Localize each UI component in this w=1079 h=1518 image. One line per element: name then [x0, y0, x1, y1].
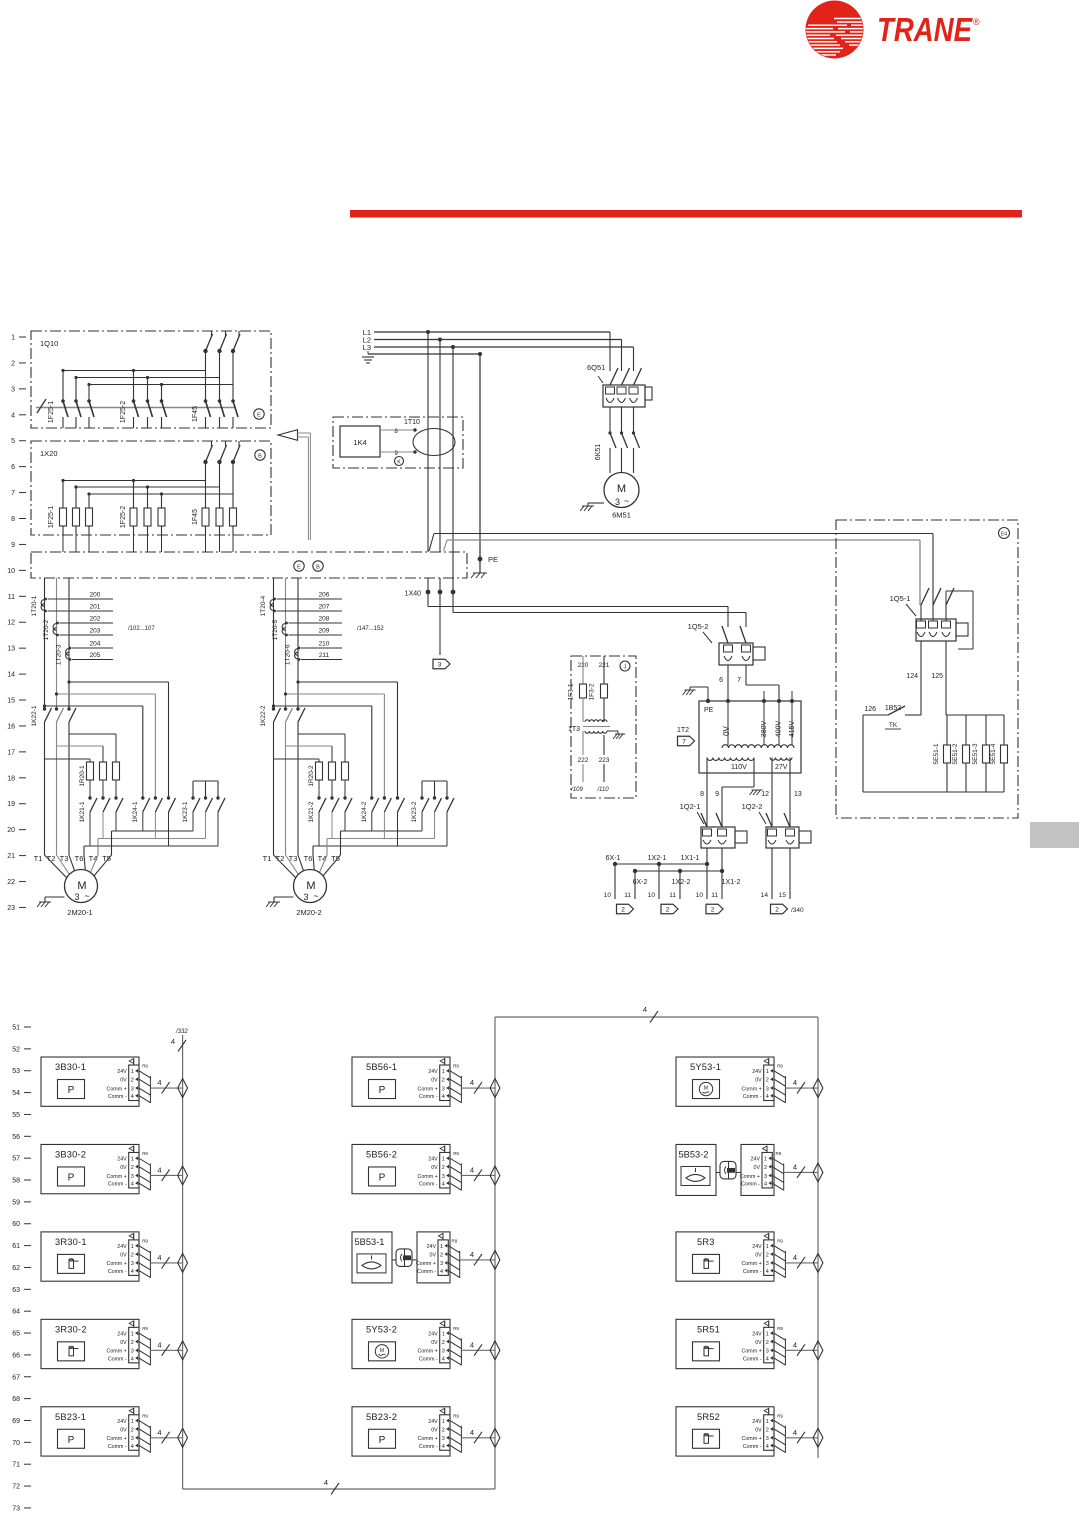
svg-text:15: 15: [7, 698, 15, 705]
svg-text:1Q10: 1Q10: [40, 339, 58, 348]
svg-text:/102...107: /102...107: [128, 626, 155, 632]
svg-text:65: 65: [12, 1331, 20, 1338]
svg-text:8: 8: [394, 428, 398, 435]
svg-text:24V: 24V: [117, 1069, 127, 1075]
svg-text:6Q51: 6Q51: [587, 363, 605, 372]
svg-text:0V: 0V: [120, 1340, 127, 1346]
svg-text:4: 4: [470, 1250, 474, 1259]
svg-text:206: 206: [319, 592, 330, 599]
svg-text:11: 11: [711, 892, 718, 899]
svg-text:16: 16: [7, 723, 15, 730]
svg-text:/109: /109: [570, 787, 583, 793]
svg-text:1R20-2: 1R20-2: [308, 765, 315, 787]
svg-text:TK: TK: [889, 722, 898, 729]
svg-text:3B30-1: 3B30-1: [55, 1062, 86, 1072]
svg-text:4: 4: [324, 1478, 328, 1487]
svg-text:24V: 24V: [117, 1244, 127, 1250]
svg-text:1K4: 1K4: [353, 438, 366, 447]
svg-text:/110: /110: [596, 787, 609, 793]
svg-text:/332: /332: [175, 1029, 188, 1035]
svg-text:1B52: 1B52: [885, 705, 901, 712]
svg-text:1F25-2: 1F25-2: [120, 506, 127, 528]
svg-text:1: 1: [131, 1244, 134, 1250]
svg-text:4: 4: [442, 1181, 445, 1187]
svg-text:0V: 0V: [430, 1252, 437, 1258]
svg-text:1: 1: [766, 1244, 769, 1250]
svg-text:1K24-2: 1K24-2: [361, 801, 368, 822]
svg-text:24V: 24V: [117, 1331, 127, 1337]
svg-text:6: 6: [11, 464, 15, 471]
svg-text:5B53-2: 5B53-2: [679, 1149, 709, 1159]
svg-text:4: 4: [793, 1162, 797, 1171]
svg-text:1X2-1: 1X2-1: [648, 855, 667, 862]
svg-text:4: 4: [766, 1356, 769, 1362]
svg-text:Comm +: Comm +: [107, 1349, 127, 1355]
svg-text:24V: 24V: [752, 1331, 762, 1337]
svg-text:R9: R9: [142, 1238, 148, 1243]
svg-text:1K21-1: 1K21-1: [79, 801, 86, 822]
svg-text:0V: 0V: [120, 1078, 127, 1084]
svg-text:20: 20: [7, 827, 15, 834]
svg-text:Comm -: Comm -: [108, 1094, 127, 1100]
svg-text:69: 69: [12, 1418, 20, 1425]
svg-text:Comm -: Comm -: [743, 1356, 762, 1362]
svg-text:2M20-1: 2M20-1: [67, 908, 92, 917]
svg-text:9: 9: [715, 791, 719, 798]
svg-text:Comm -: Comm -: [108, 1444, 127, 1450]
svg-text:1: 1: [766, 1069, 769, 1075]
svg-text:1T20-4: 1T20-4: [260, 595, 267, 616]
svg-text:24V: 24V: [751, 1157, 761, 1163]
svg-text:J: J: [624, 665, 627, 671]
svg-text:Comm +: Comm +: [107, 1261, 127, 1267]
svg-text:0V: 0V: [431, 1340, 438, 1346]
svg-text:0V: 0V: [431, 1427, 438, 1433]
svg-text:3: 3: [442, 1436, 445, 1442]
svg-text:Comm +: Comm +: [418, 1174, 438, 1180]
svg-text:17: 17: [7, 749, 15, 756]
svg-text:4: 4: [470, 1428, 474, 1437]
svg-text:6K51: 6K51: [595, 444, 602, 460]
svg-text:1K21-2: 1K21-2: [308, 801, 315, 822]
svg-text:1K22-2: 1K22-2: [260, 705, 267, 726]
svg-text:2: 2: [442, 1165, 445, 1171]
svg-text:Comm -: Comm -: [743, 1094, 762, 1100]
svg-text:1F45: 1F45: [192, 509, 199, 525]
svg-text:Comm +: Comm +: [742, 1261, 762, 1267]
svg-text:TRANE: TRANE: [877, 11, 973, 48]
svg-text:5Y53-2: 5Y53-2: [366, 1324, 397, 1334]
svg-text:3: 3: [303, 892, 308, 902]
svg-text:55: 55: [12, 1112, 20, 1119]
svg-text:73: 73: [12, 1505, 20, 1512]
svg-text:6: 6: [719, 677, 723, 684]
svg-text:24V: 24V: [117, 1157, 127, 1163]
svg-text:4: 4: [157, 1253, 161, 1262]
svg-text:10: 10: [648, 892, 656, 899]
svg-text:1: 1: [442, 1069, 445, 1075]
svg-text:4: 4: [131, 1356, 134, 1362]
svg-text:1Q5-1: 1Q5-1: [890, 594, 911, 603]
svg-text:207: 207: [319, 604, 330, 611]
svg-text:Comm -: Comm -: [419, 1444, 438, 1450]
svg-text:10: 10: [7, 568, 15, 575]
svg-text:2: 2: [442, 1427, 445, 1433]
svg-text:1: 1: [442, 1157, 445, 1163]
svg-text:1X40: 1X40: [405, 591, 421, 598]
svg-text:4: 4: [793, 1078, 797, 1087]
svg-text:7: 7: [737, 677, 741, 684]
svg-text:5R52: 5R52: [697, 1412, 720, 1422]
svg-text:Comm +: Comm +: [107, 1174, 127, 1180]
svg-text:R9: R9: [776, 1151, 782, 1156]
svg-text:126: 126: [864, 706, 876, 713]
svg-text:1: 1: [766, 1419, 769, 1425]
svg-text:22: 22: [7, 879, 15, 886]
svg-text:1T20-3: 1T20-3: [56, 644, 63, 665]
svg-text:125: 125: [931, 673, 943, 680]
svg-text:2: 2: [131, 1078, 134, 1084]
svg-text:1K23-1: 1K23-1: [182, 801, 189, 822]
svg-text:1K24-1: 1K24-1: [132, 801, 139, 822]
svg-text:1: 1: [442, 1331, 445, 1337]
svg-text:T1: T1: [34, 854, 43, 863]
svg-text:3: 3: [11, 386, 15, 393]
svg-text:59: 59: [12, 1199, 20, 1206]
svg-text:203: 203: [90, 628, 101, 635]
svg-text:Comm +: Comm +: [742, 1349, 762, 1355]
svg-text:5B23-1: 5B23-1: [55, 1412, 86, 1422]
svg-text:1F25-2: 1F25-2: [120, 401, 127, 423]
svg-text:3: 3: [440, 1261, 443, 1267]
svg-text:18: 18: [7, 775, 15, 782]
svg-text:2: 2: [131, 1252, 134, 1258]
svg-text:1: 1: [131, 1157, 134, 1163]
svg-text:4: 4: [440, 1269, 443, 1275]
svg-text:1T20-2: 1T20-2: [43, 619, 50, 640]
svg-text:24V: 24V: [752, 1244, 762, 1250]
svg-text:110V: 110V: [731, 764, 747, 771]
svg-text:5R51: 5R51: [697, 1324, 720, 1334]
svg-text:E: E: [257, 413, 261, 419]
svg-text:2: 2: [775, 907, 779, 914]
svg-text:15: 15: [779, 892, 787, 899]
svg-text:Comm -: Comm -: [108, 1356, 127, 1362]
svg-text:1: 1: [440, 1244, 443, 1250]
svg-text:1T3: 1T3: [568, 726, 580, 733]
svg-text:1: 1: [442, 1419, 445, 1425]
svg-text:14: 14: [7, 672, 15, 679]
svg-text:R9: R9: [777, 1326, 783, 1331]
svg-text:/340: /340: [791, 907, 804, 914]
svg-text:9: 9: [11, 542, 15, 549]
svg-text:6M51: 6M51: [612, 511, 631, 520]
svg-text:3: 3: [442, 1174, 445, 1180]
svg-text:4: 4: [766, 1444, 769, 1450]
svg-text:124: 124: [906, 673, 918, 680]
svg-text:5E51-2: 5E51-2: [952, 743, 959, 764]
svg-text:R9: R9: [777, 1064, 783, 1069]
svg-text:0V: 0V: [120, 1427, 127, 1433]
svg-text:4: 4: [470, 1165, 474, 1174]
svg-text:3: 3: [131, 1174, 134, 1180]
svg-text:1: 1: [131, 1331, 134, 1337]
svg-text:24V: 24V: [752, 1419, 762, 1425]
svg-text:21: 21: [7, 853, 15, 860]
svg-text:2: 2: [766, 1252, 769, 1258]
svg-text:60: 60: [12, 1221, 20, 1228]
svg-text:4: 4: [131, 1444, 134, 1450]
svg-text:4: 4: [131, 1094, 134, 1100]
svg-text:4: 4: [131, 1181, 134, 1187]
svg-text:3: 3: [766, 1261, 769, 1267]
svg-text:3B30-2: 3B30-2: [55, 1149, 86, 1159]
svg-text:/147...152: /147...152: [357, 626, 384, 632]
svg-text:Comm -: Comm -: [419, 1356, 438, 1362]
svg-text:2: 2: [621, 907, 625, 914]
svg-text:23: 23: [7, 905, 15, 912]
svg-text:1F3-2: 1F3-2: [589, 683, 596, 700]
svg-text:5R3: 5R3: [697, 1237, 715, 1247]
svg-text:Comm +: Comm +: [742, 1086, 762, 1092]
svg-text:7: 7: [11, 490, 15, 497]
svg-text:3: 3: [442, 1349, 445, 1355]
svg-text:4: 4: [11, 412, 15, 419]
svg-text:PE: PE: [488, 555, 498, 564]
svg-text:11: 11: [8, 594, 15, 601]
svg-text:2: 2: [131, 1340, 134, 1346]
svg-text:3: 3: [766, 1349, 769, 1355]
svg-text:63: 63: [12, 1287, 20, 1294]
svg-text:1Q5-2: 1Q5-2: [688, 622, 709, 631]
svg-text:Comm -: Comm -: [419, 1181, 438, 1187]
svg-text:6X-2: 6X-2: [633, 879, 648, 886]
svg-text:3: 3: [615, 497, 620, 507]
svg-text:R9: R9: [453, 1413, 459, 1418]
svg-text:1Q2-1: 1Q2-1: [680, 802, 701, 811]
svg-text:1K23-2: 1K23-2: [411, 801, 418, 822]
svg-text:4: 4: [442, 1094, 445, 1100]
svg-text:4: 4: [793, 1428, 797, 1437]
svg-text:4: 4: [470, 1078, 474, 1087]
svg-text:5Y53-1: 5Y53-1: [690, 1062, 721, 1072]
svg-text:1X1-1: 1X1-1: [681, 855, 700, 862]
svg-text:2: 2: [440, 1252, 443, 1258]
svg-text:5: 5: [11, 438, 15, 445]
svg-text:27V: 27V: [775, 764, 788, 771]
svg-text:4: 4: [157, 1340, 161, 1349]
svg-text:2: 2: [766, 1427, 769, 1433]
svg-text:13: 13: [794, 791, 802, 798]
svg-text:204: 204: [90, 641, 101, 648]
svg-text:11: 11: [624, 892, 631, 899]
svg-text:2: 2: [442, 1340, 445, 1346]
svg-text:R9: R9: [777, 1413, 783, 1418]
svg-text:24V: 24V: [428, 1331, 438, 1337]
svg-text:0V: 0V: [431, 1078, 438, 1084]
svg-text:1T10: 1T10: [404, 419, 420, 426]
svg-text:Comm +: Comm +: [416, 1261, 436, 1267]
svg-text:5E51-3: 5E51-3: [972, 743, 979, 764]
svg-text:3: 3: [131, 1086, 134, 1092]
svg-text:1X20: 1X20: [40, 449, 58, 458]
svg-text:~: ~: [624, 496, 629, 506]
svg-text:3: 3: [74, 892, 79, 902]
svg-text:1F25-1: 1F25-1: [48, 401, 55, 423]
svg-text:3R30-2: 3R30-2: [55, 1324, 87, 1334]
svg-text:205: 205: [90, 652, 101, 659]
svg-text:51: 51: [12, 1025, 20, 1032]
svg-text:Comm -: Comm -: [108, 1269, 127, 1275]
svg-text:P: P: [379, 1085, 386, 1096]
svg-text:R9: R9: [453, 1326, 459, 1331]
svg-text:58: 58: [12, 1178, 20, 1185]
svg-text:3: 3: [766, 1436, 769, 1442]
svg-text:0V: 0V: [755, 1427, 762, 1433]
svg-text:1F3-1: 1F3-1: [568, 683, 575, 700]
svg-text:B: B: [258, 454, 262, 460]
svg-text:1T20-6: 1T20-6: [285, 644, 292, 665]
svg-text:2: 2: [666, 907, 670, 914]
svg-text:P: P: [379, 1172, 386, 1183]
svg-text:222: 222: [578, 757, 589, 764]
svg-text:12: 12: [761, 791, 769, 798]
svg-text:4: 4: [131, 1269, 134, 1275]
svg-text:8: 8: [11, 516, 15, 523]
svg-text:200: 200: [90, 592, 101, 599]
svg-text:Comm -: Comm -: [108, 1181, 127, 1187]
svg-text:211: 211: [319, 652, 330, 659]
svg-text:3: 3: [131, 1261, 134, 1267]
svg-text:R9: R9: [142, 1413, 148, 1418]
svg-text:P: P: [379, 1435, 386, 1446]
svg-text:2: 2: [764, 1165, 767, 1171]
svg-text:Comm +: Comm +: [740, 1174, 760, 1180]
svg-text:4: 4: [766, 1269, 769, 1275]
svg-text:4: 4: [157, 1428, 161, 1437]
svg-text:64: 64: [12, 1309, 20, 1316]
svg-text:67: 67: [12, 1374, 20, 1381]
svg-text:24V: 24V: [428, 1069, 438, 1075]
svg-text:61: 61: [12, 1243, 20, 1250]
svg-text:2: 2: [766, 1078, 769, 1084]
svg-text:4: 4: [766, 1094, 769, 1100]
svg-text:5B53-1: 5B53-1: [355, 1237, 385, 1247]
svg-text:R9: R9: [453, 1151, 459, 1156]
svg-text:9: 9: [394, 450, 398, 457]
svg-text:68: 68: [12, 1396, 20, 1403]
svg-text:Comm -: Comm -: [417, 1269, 436, 1275]
svg-text:210: 210: [319, 641, 330, 648]
svg-text:2M20-2: 2M20-2: [296, 908, 321, 917]
svg-text:24V: 24V: [117, 1419, 127, 1425]
svg-text:Comm +: Comm +: [742, 1436, 762, 1442]
svg-text:2: 2: [11, 360, 15, 367]
svg-text:1K22-1: 1K22-1: [31, 705, 38, 726]
svg-text:10: 10: [604, 892, 612, 899]
svg-text:14: 14: [761, 892, 769, 899]
svg-text:1: 1: [131, 1069, 134, 1075]
svg-text:M: M: [704, 1086, 708, 1092]
svg-text:~: ~: [313, 891, 318, 901]
svg-text:52: 52: [12, 1046, 20, 1053]
svg-text:5B56-1: 5B56-1: [366, 1062, 397, 1072]
svg-text:4: 4: [793, 1253, 797, 1262]
svg-text:Comm +: Comm +: [418, 1436, 438, 1442]
svg-text:0V: 0V: [120, 1165, 127, 1171]
svg-text:R9: R9: [777, 1238, 783, 1243]
svg-text:53: 53: [12, 1068, 20, 1075]
svg-text:1: 1: [766, 1331, 769, 1337]
svg-text:4: 4: [442, 1356, 445, 1362]
svg-text:8: 8: [700, 791, 704, 798]
svg-text:3: 3: [764, 1174, 767, 1180]
svg-text:57: 57: [12, 1156, 20, 1163]
svg-text:2: 2: [131, 1427, 134, 1433]
svg-text:4: 4: [171, 1037, 175, 1046]
svg-text:208: 208: [319, 616, 330, 623]
svg-text:2: 2: [442, 1078, 445, 1084]
svg-text:R9: R9: [452, 1238, 458, 1243]
svg-text:T1: T1: [263, 854, 272, 863]
svg-text:3: 3: [766, 1086, 769, 1092]
svg-text:0V: 0V: [755, 1078, 762, 1084]
svg-text:Comm -: Comm -: [743, 1444, 762, 1450]
svg-text:1F25-1: 1F25-1: [48, 506, 55, 528]
svg-text:Comm -: Comm -: [419, 1094, 438, 1100]
svg-text:24V: 24V: [427, 1244, 437, 1250]
svg-text:66: 66: [12, 1352, 20, 1359]
svg-text:E: E: [297, 565, 301, 571]
svg-text:1: 1: [131, 1419, 134, 1425]
svg-text:P: P: [68, 1172, 75, 1183]
svg-text:7: 7: [682, 739, 686, 746]
svg-text:1: 1: [764, 1157, 767, 1163]
svg-text:70: 70: [12, 1440, 20, 1447]
svg-text:Comm -: Comm -: [741, 1181, 760, 1187]
svg-text:T6: T6: [75, 854, 84, 863]
svg-text:202: 202: [90, 616, 101, 623]
svg-text:B: B: [316, 565, 320, 571]
svg-text:1X2-2: 1X2-2: [672, 879, 691, 886]
svg-text:72: 72: [12, 1484, 20, 1491]
svg-text:4: 4: [157, 1165, 161, 1174]
svg-text:P: P: [68, 1435, 75, 1446]
svg-text:4: 4: [470, 1340, 474, 1349]
svg-text:R9: R9: [142, 1151, 148, 1156]
svg-text:3: 3: [438, 662, 442, 669]
svg-text:1Q2-2: 1Q2-2: [742, 802, 763, 811]
svg-text:13: 13: [7, 646, 15, 653]
svg-text:3: 3: [131, 1349, 134, 1355]
svg-text:1: 1: [11, 335, 15, 342]
svg-text:1R20-1: 1R20-1: [79, 765, 86, 787]
svg-text:5B23-2: 5B23-2: [366, 1412, 397, 1422]
svg-text:5E51-4: 5E51-4: [990, 743, 997, 764]
svg-text:3: 3: [131, 1436, 134, 1442]
svg-text:M: M: [617, 483, 626, 495]
svg-text:0V: 0V: [754, 1165, 761, 1171]
svg-text:2: 2: [131, 1165, 134, 1171]
svg-text:4: 4: [793, 1340, 797, 1349]
svg-text:~: ~: [84, 891, 89, 901]
svg-text:1F45: 1F45: [192, 406, 199, 422]
svg-text:PE: PE: [704, 707, 714, 714]
svg-text:19: 19: [7, 801, 15, 808]
svg-text:Comm +: Comm +: [107, 1436, 127, 1442]
svg-text:12: 12: [7, 620, 15, 627]
svg-text:1T20-1: 1T20-1: [31, 595, 38, 616]
